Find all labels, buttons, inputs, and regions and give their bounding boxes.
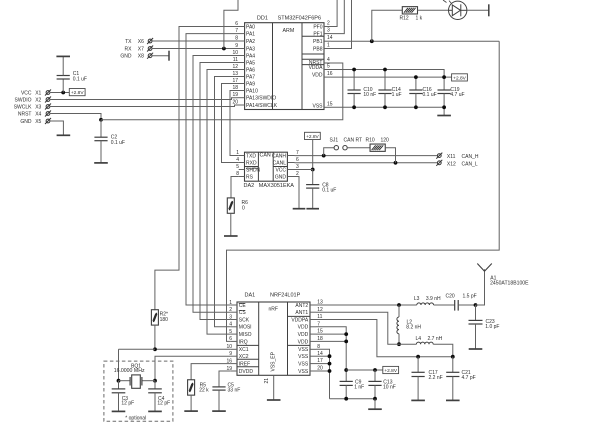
svg-text:SWCLK: SWCLK <box>14 104 32 110</box>
svg-text:MISO: MISO <box>239 332 252 338</box>
svg-text:PB1: PB1 <box>313 39 323 45</box>
svg-text:PA13/SWDIO: PA13/SWDIO <box>246 96 276 102</box>
svg-text:X2: X2 <box>35 97 41 103</box>
svg-text:ARM: ARM <box>283 28 295 34</box>
svg-text:+2.8V: +2.8V <box>384 368 397 374</box>
svg-text:4.7 pF: 4.7 pF <box>462 375 476 381</box>
svg-text:2: 2 <box>229 307 232 313</box>
svg-text:5: 5 <box>236 164 239 170</box>
svg-text:X5: X5 <box>35 119 41 125</box>
svg-text:PA6: PA6 <box>246 67 255 73</box>
svg-text:0.1 uF: 0.1 uF <box>111 140 125 146</box>
svg-text:NRST: NRST <box>18 111 32 117</box>
svg-text:2450AT18B100E: 2450AT18B100E <box>490 280 529 286</box>
svg-text:R12: R12 <box>400 15 409 21</box>
svg-text:4: 4 <box>236 157 239 163</box>
svg-text:PB8: PB8 <box>313 47 323 53</box>
svg-text:TX: TX <box>125 39 132 45</box>
svg-text:XC1: XC1 <box>239 347 249 353</box>
svg-text:X8: X8 <box>138 54 144 60</box>
svg-text:120: 120 <box>381 138 390 144</box>
svg-text:PA1: PA1 <box>246 32 255 38</box>
svg-text:X7: X7 <box>138 46 144 52</box>
svg-text:SJ1: SJ1 <box>330 138 339 144</box>
svg-text:CAN: CAN <box>260 152 271 158</box>
svg-text:0.1 uF: 0.1 uF <box>322 188 336 194</box>
svg-text:+2.8V: +2.8V <box>71 90 84 96</box>
svg-text:* optional: * optional <box>125 416 146 422</box>
svg-text:TXD: TXD <box>246 153 256 159</box>
svg-text:PA3: PA3 <box>246 46 255 52</box>
svg-text:22 k: 22 k <box>199 387 209 393</box>
svg-text:PA10: PA10 <box>246 88 258 94</box>
svg-text:X6: X6 <box>138 39 144 45</box>
svg-text:16: 16 <box>327 71 333 77</box>
svg-text:CAN_H: CAN_H <box>462 154 479 160</box>
svg-text:VCC: VCC <box>21 90 32 96</box>
svg-text:X4: X4 <box>35 111 41 117</box>
svg-text:15: 15 <box>327 101 333 107</box>
svg-text:1 k: 1 k <box>416 15 423 21</box>
svg-text:0: 0 <box>242 206 245 212</box>
svg-text:RX: RX <box>125 46 133 52</box>
svg-text:12 pF: 12 pF <box>157 400 170 406</box>
svg-text:PF0: PF0 <box>313 25 322 31</box>
svg-text:8.2 nH: 8.2 nH <box>406 325 421 331</box>
svg-text:STM32F042F6P6: STM32F042F6P6 <box>278 15 321 21</box>
svg-text:SWDIO: SWDIO <box>15 97 32 103</box>
svg-text:CANH: CANH <box>272 153 287 159</box>
svg-text:L4: L4 <box>416 336 422 342</box>
svg-text:ANT2: ANT2 <box>295 303 308 309</box>
svg-text:C20: C20 <box>446 294 455 300</box>
svg-text:6: 6 <box>229 336 232 342</box>
svg-text:VDD: VDD <box>298 332 309 338</box>
svg-text:VSS_EP: VSS_EP <box>270 351 276 371</box>
svg-text:0.1 uF: 0.1 uF <box>73 76 87 82</box>
svg-text:4: 4 <box>327 57 330 63</box>
svg-text:VDDPA: VDDPA <box>291 317 309 323</box>
svg-text:1 uF: 1 uF <box>392 92 402 98</box>
svg-text:VSS: VSS <box>298 354 309 360</box>
svg-text:1.5 pF: 1.5 pF <box>463 294 477 300</box>
svg-text:1 nF: 1 nF <box>354 385 364 391</box>
svg-text:3.9 nH: 3.9 nH <box>426 296 441 302</box>
svg-text:X3: X3 <box>35 104 41 110</box>
svg-text:VSS: VSS <box>298 369 309 375</box>
svg-text:10 nF: 10 nF <box>383 385 396 391</box>
svg-text:PA7: PA7 <box>246 74 255 80</box>
svg-text:6: 6 <box>296 157 299 163</box>
svg-text:MOSI: MOSI <box>239 325 252 331</box>
svg-text:14: 14 <box>327 35 333 41</box>
svg-text:10 nF: 10 nF <box>363 92 376 98</box>
svg-text:PA2: PA2 <box>246 39 255 45</box>
svg-text:4.7 uF: 4.7 uF <box>450 92 464 98</box>
svg-text:IREF: IREF <box>239 362 250 368</box>
svg-text:VDDA: VDDA <box>309 65 324 71</box>
svg-text:NRF24L01P: NRF24L01P <box>270 292 301 298</box>
svg-text:ANT1: ANT1 <box>295 310 308 316</box>
svg-text:1: 1 <box>229 300 232 306</box>
svg-text:33 nF: 33 nF <box>228 387 241 393</box>
svg-text:1.0 pF: 1.0 pF <box>485 324 499 330</box>
svg-text:VSS: VSS <box>298 347 309 353</box>
svg-text:RXD: RXD <box>246 160 257 166</box>
svg-text:PF1: PF1 <box>313 32 322 38</box>
svg-text:12 pF: 12 pF <box>121 400 134 406</box>
svg-text:0.1 uF: 0.1 uF <box>423 92 437 98</box>
svg-text:4: 4 <box>229 322 232 328</box>
svg-text:3: 3 <box>229 314 232 320</box>
svg-text:GND: GND <box>20 119 32 125</box>
svg-text:VDD: VDD <box>312 73 323 79</box>
svg-text:PA9: PA9 <box>246 81 255 87</box>
svg-text:21: 21 <box>264 378 270 384</box>
svg-text:PA0: PA0 <box>246 24 255 30</box>
svg-text:VCC: VCC <box>275 167 286 173</box>
svg-text:2.7 nH: 2.7 nH <box>428 336 443 342</box>
svg-text:CAN_L: CAN_L <box>462 161 478 167</box>
svg-text:nRF: nRF <box>269 306 278 312</box>
svg-text:2.2 nF: 2.2 nF <box>429 375 443 381</box>
svg-text:VSS: VSS <box>298 362 309 368</box>
svg-text:CAN RT: CAN RT <box>344 138 363 144</box>
svg-text:X11: X11 <box>447 154 456 160</box>
svg-text:180: 180 <box>160 317 169 323</box>
svg-text:2: 2 <box>327 21 330 27</box>
svg-text:GND: GND <box>120 54 132 60</box>
svg-text:X12: X12 <box>447 161 456 167</box>
svg-text:5: 5 <box>327 64 330 70</box>
svg-text:DVDD: DVDD <box>239 369 254 375</box>
svg-text:VSS: VSS <box>312 104 323 110</box>
svg-text:X1: X1 <box>35 90 41 96</box>
svg-text:SCK: SCK <box>239 317 250 323</box>
svg-text:16.0000 MHz: 16.0000 MHz <box>114 368 145 374</box>
svg-text:PA14/SWCLK: PA14/SWCLK <box>246 103 278 109</box>
svg-text:R10: R10 <box>366 138 375 144</box>
svg-text:3: 3 <box>327 28 330 34</box>
svg-text:+2.8V: +2.8V <box>453 75 466 81</box>
svg-text:DA2: DA2 <box>244 183 255 189</box>
svg-text:CS: CS <box>239 310 247 316</box>
svg-text:DD1: DD1 <box>257 15 268 21</box>
svg-text:VDD: VDD <box>298 325 309 331</box>
svg-text:PA5: PA5 <box>246 60 255 66</box>
svg-text:L3: L3 <box>414 296 420 302</box>
svg-text:VDD: VDD <box>298 339 309 345</box>
svg-text:XC2: XC2 <box>239 354 249 360</box>
svg-text:1: 1 <box>327 43 330 49</box>
svg-text:RS: RS <box>246 174 254 180</box>
svg-text:5: 5 <box>229 329 232 335</box>
svg-text:GND: GND <box>275 174 287 180</box>
svg-text:DA1: DA1 <box>245 292 256 298</box>
svg-text:CANL: CANL <box>273 160 287 166</box>
svg-text:PA4: PA4 <box>246 53 255 59</box>
svg-text:IRQ: IRQ <box>239 339 248 345</box>
svg-text:1: 1 <box>236 150 239 156</box>
svg-text:+2.8V: +2.8V <box>306 134 319 140</box>
svg-text:MAX3051EKA: MAX3051EKA <box>259 183 294 189</box>
